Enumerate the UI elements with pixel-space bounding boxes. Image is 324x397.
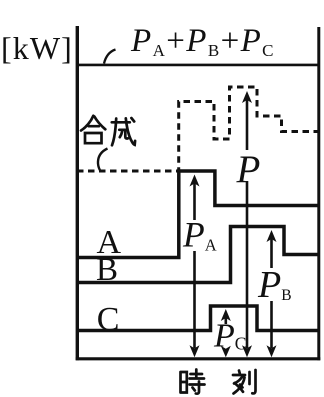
svg-text:B: B xyxy=(96,252,118,288)
svg-text:P: P xyxy=(236,148,261,191)
svg-text:PA+PB+PC: PA+PB+PC xyxy=(130,23,275,60)
svg-text:[kW]: [kW] xyxy=(1,30,73,66)
svg-text:C: C xyxy=(97,301,120,338)
